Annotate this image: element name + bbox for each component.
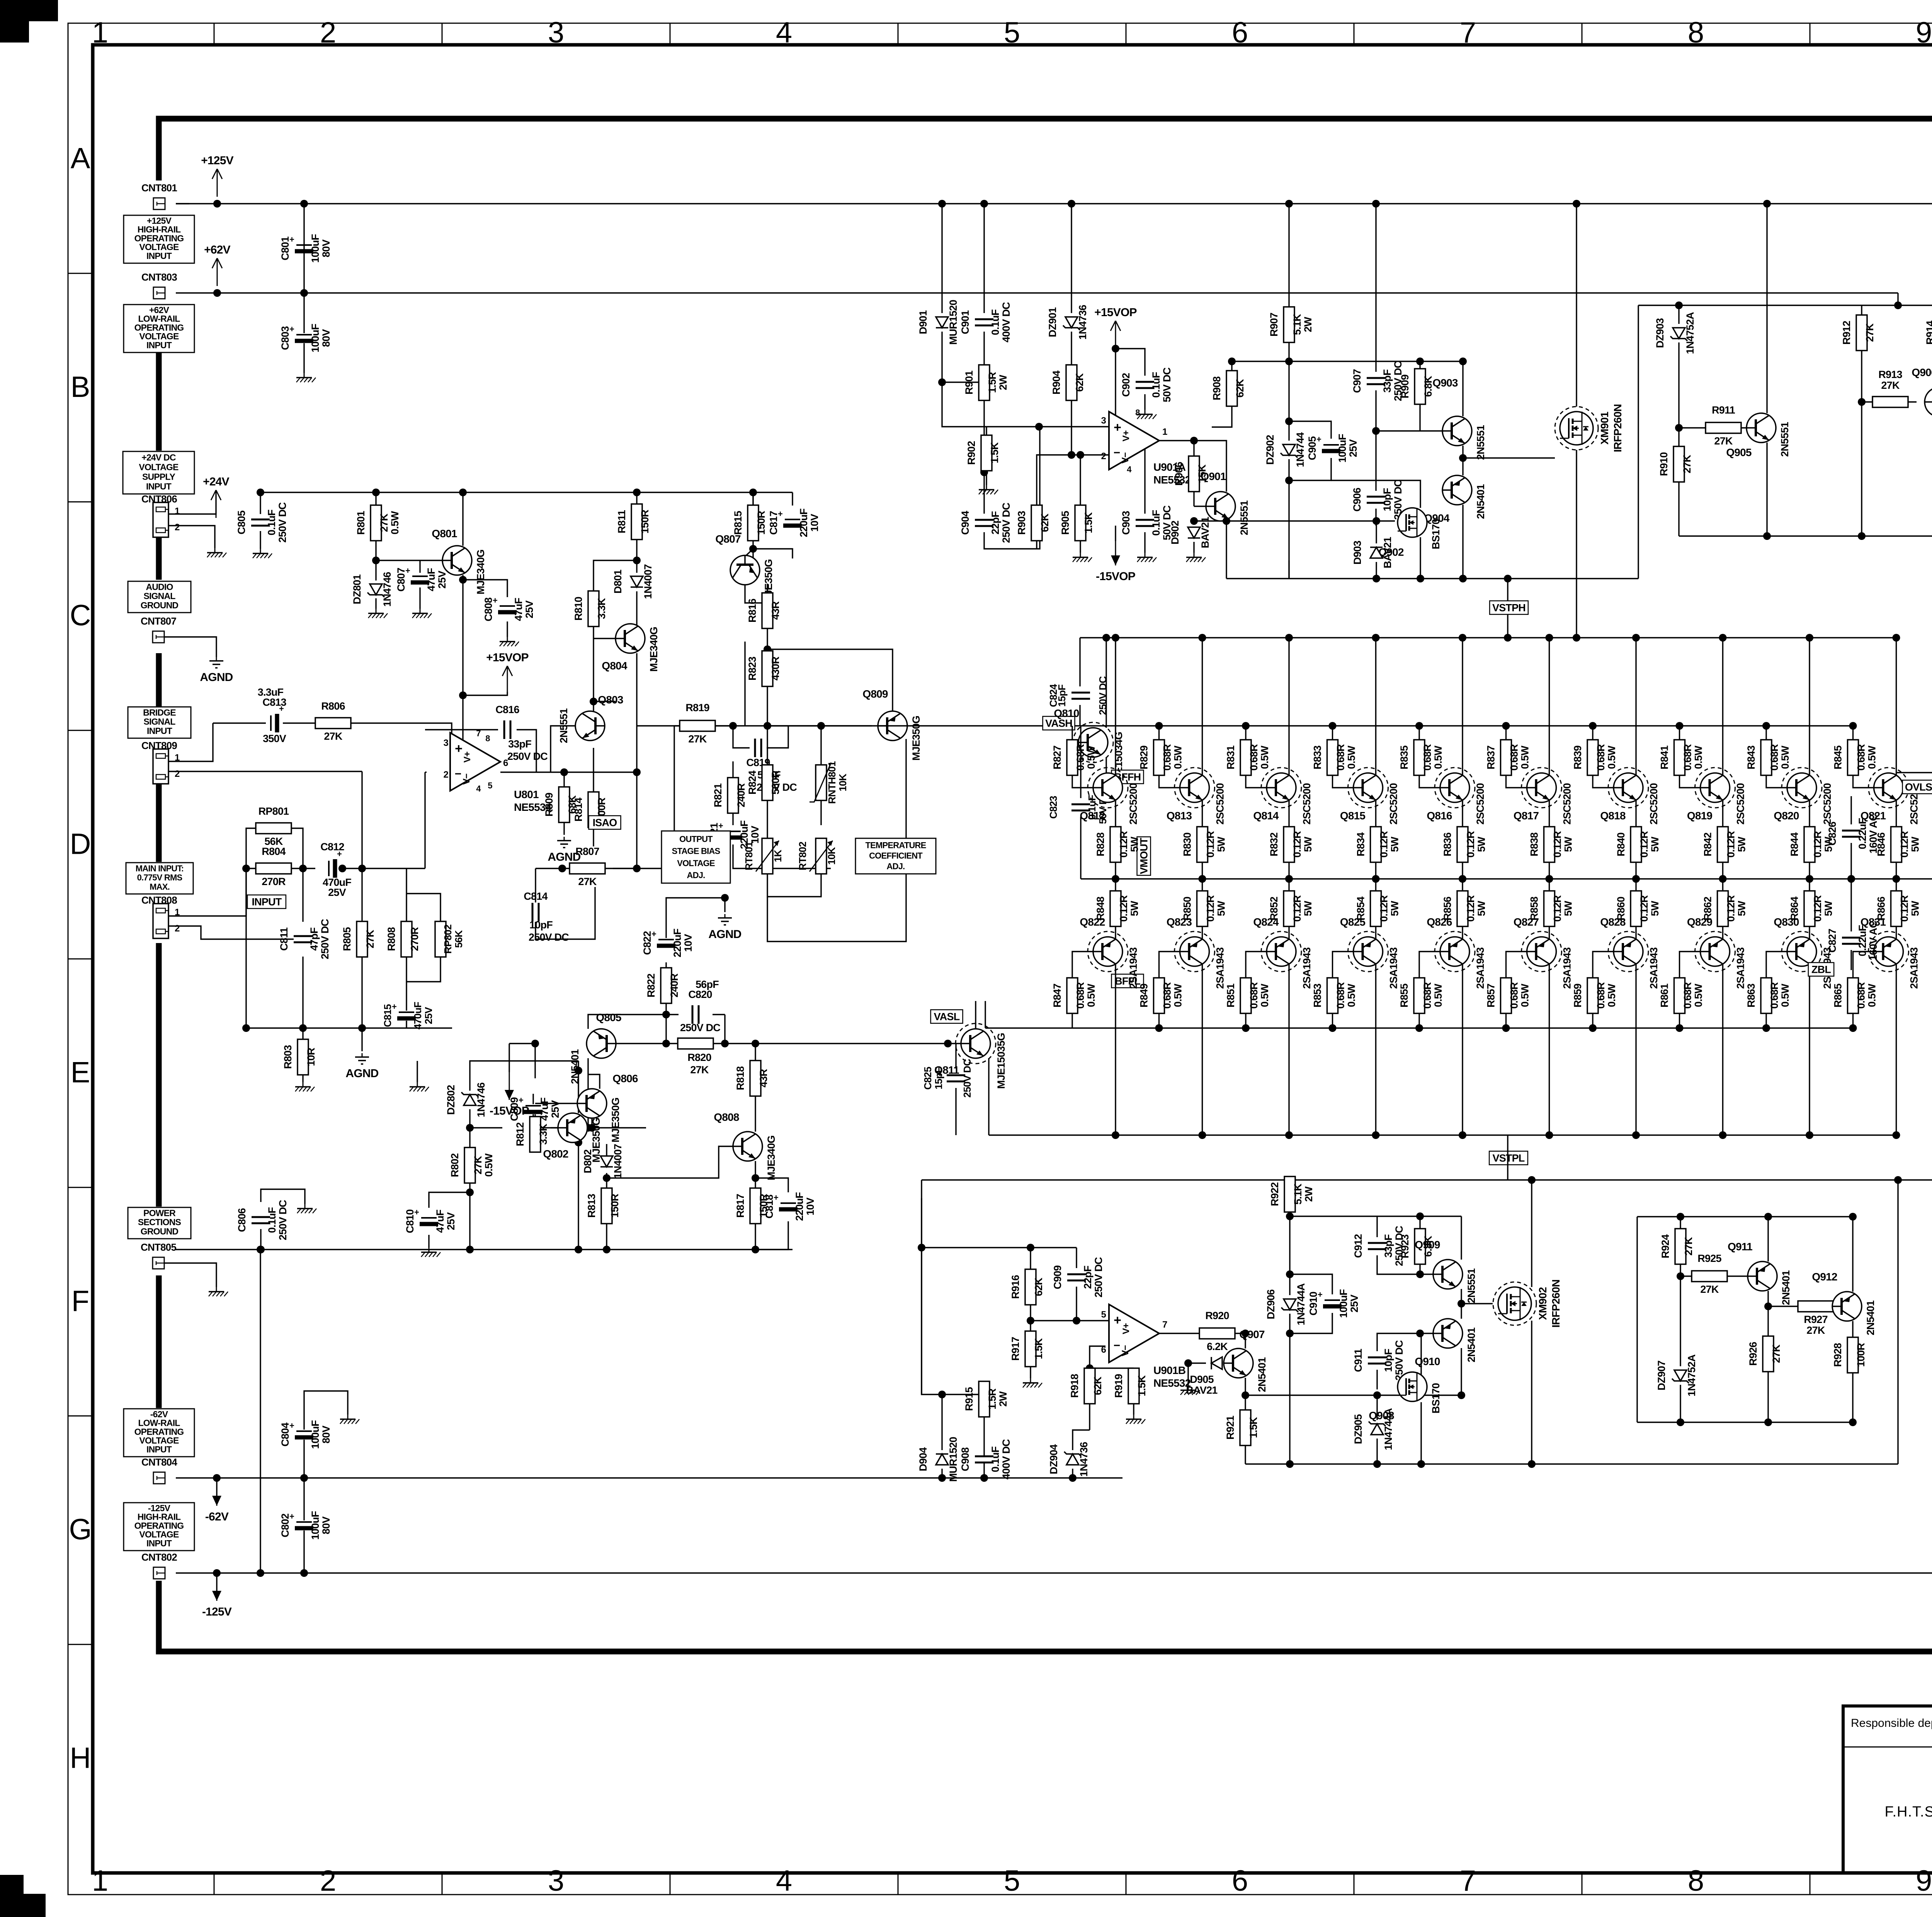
svg-text:62K: 62K xyxy=(1092,1376,1104,1395)
pot RT801 xyxy=(762,838,773,874)
junction baselow7 xyxy=(1589,1024,1597,1032)
junction R801 top xyxy=(372,489,380,496)
svg-text:0.12R: 0.12R xyxy=(1465,831,1476,858)
net label VASH xyxy=(1043,717,1075,730)
wire lower collector bus xyxy=(989,1134,1896,1136)
transistor Q912 xyxy=(1832,1292,1862,1321)
wire C909 bot xyxy=(1076,1287,1077,1321)
wire R909 bot xyxy=(1419,404,1420,431)
svg-text:50V DC: 50V DC xyxy=(1161,506,1173,540)
svg-text:2N5401: 2N5401 xyxy=(1475,484,1486,519)
svg-text:C805: C805 xyxy=(236,511,247,535)
resistor R848 xyxy=(1110,891,1121,926)
junction Q902 source xyxy=(1417,575,1424,582)
junction C806 bottom xyxy=(257,1246,265,1253)
svg-text:0.5W: 0.5W xyxy=(1519,746,1531,769)
wire base lead Q822 xyxy=(1072,952,1093,978)
svg-text:0.5W: 0.5W xyxy=(1606,984,1617,1007)
junction Q802 top node xyxy=(575,1067,582,1074)
svg-text:SIGNAL: SIGNAL xyxy=(143,591,175,601)
wire C911 top xyxy=(1377,1333,1420,1351)
svg-text:250V DC: 250V DC xyxy=(680,1022,720,1033)
svg-text:MAX.: MAX. xyxy=(150,882,170,892)
wire base resistor R865 xyxy=(1852,1013,1854,1028)
wire Q804 base xyxy=(594,638,616,639)
junction input node C xyxy=(338,865,346,872)
svg-text:R808: R808 xyxy=(386,927,397,951)
svg-text:−: − xyxy=(455,768,461,780)
label -62V input box xyxy=(124,1409,194,1457)
wire C813-R806 xyxy=(283,722,315,724)
wire +62V bus xyxy=(176,292,1898,293)
svg-text:R829: R829 xyxy=(1138,746,1150,770)
junction col1 vmout xyxy=(1112,875,1119,883)
svg-text:0.5W: 0.5W xyxy=(1346,746,1357,769)
resistor R918 xyxy=(1084,1368,1095,1404)
zone column divider 2|3 xyxy=(442,23,443,45)
resistor R854 xyxy=(1371,891,1381,926)
junction Q907 base xyxy=(1184,1359,1192,1367)
wire R815 bot xyxy=(752,549,753,558)
resistor R801 xyxy=(371,505,381,541)
wire R819 row xyxy=(637,725,680,726)
wire RNTH801 bot xyxy=(820,800,821,825)
svg-text:7: 7 xyxy=(1460,16,1476,49)
svg-text:R830: R830 xyxy=(1182,833,1193,856)
junction gnd bus C xyxy=(358,1024,366,1032)
junction DZ901 top xyxy=(1068,200,1075,208)
svg-text:400V DC: 400V DC xyxy=(1000,1439,1012,1479)
svg-text:B: B xyxy=(71,371,90,403)
heavy stub below CNT808 xyxy=(156,943,162,1207)
junction rail 2385-3228 xyxy=(918,1244,925,1251)
junction base4 top xyxy=(1329,722,1337,730)
svg-text:R926: R926 xyxy=(1747,1342,1759,1366)
svg-text:R859: R859 xyxy=(1572,984,1583,1008)
svg-text:D901: D901 xyxy=(917,310,929,334)
svg-text:2N5551: 2N5551 xyxy=(1238,500,1250,535)
junction C803 top xyxy=(300,289,308,297)
svg-text:C908: C908 xyxy=(959,1447,971,1471)
wire C816 left xyxy=(425,729,498,730)
junction C805 top xyxy=(257,489,264,496)
wire Q802 base row ext xyxy=(535,1127,558,1128)
svg-text:SUPPLY: SUPPLY xyxy=(142,472,175,482)
resistor R820 xyxy=(678,1038,713,1049)
junction base8 top xyxy=(1676,722,1684,730)
svg-text:25V: 25V xyxy=(524,600,535,618)
svg-text:1N4007: 1N4007 xyxy=(612,1144,624,1179)
wire C822 col xyxy=(665,926,667,943)
svg-text:2SC5200: 2SC5200 xyxy=(1128,783,1139,825)
wire R811 node to R810 xyxy=(594,560,637,591)
svg-text:0.68R: 0.68R xyxy=(1595,982,1607,1009)
svg-text:25V: 25V xyxy=(549,1100,561,1118)
wire R922 top xyxy=(1289,1176,1290,1180)
svg-text:IRFP260N: IRFP260N xyxy=(1550,1280,1562,1328)
svg-text:Q803: Q803 xyxy=(598,694,623,706)
capacitor C812 xyxy=(327,858,337,878)
opamp U801 xyxy=(450,733,500,791)
svg-text:0.68R: 0.68R xyxy=(1248,744,1260,771)
svg-text:250V DC: 250V DC xyxy=(1000,503,1012,543)
capacitor C808 xyxy=(497,604,517,615)
zone row divider B|C xyxy=(68,501,93,502)
svg-text:F.H.T.S. AUDIO POWER AMPLIFIER: F.H.T.S. AUDIO POWER AMPLIFIER xyxy=(1885,1804,1932,1820)
ground C804 xyxy=(347,1415,349,1419)
resistor R908 xyxy=(1226,371,1237,406)
wire R822 col xyxy=(665,962,667,968)
junction DZ906 bot node xyxy=(1286,1330,1294,1337)
wire base resistor R835 xyxy=(1418,726,1420,740)
wire C826-C827 xyxy=(1850,879,1852,931)
wire base resistor R859 xyxy=(1592,1013,1593,1028)
junction baselow2 xyxy=(1155,1024,1163,1032)
wire +24V front bus xyxy=(260,492,793,493)
svg-text:−: − xyxy=(1114,1339,1120,1352)
mosfet XM902 xyxy=(1493,1282,1536,1325)
junction col9 top xyxy=(1806,634,1813,642)
svg-text:Q817: Q817 xyxy=(1514,810,1539,822)
resistor R924 xyxy=(1675,1229,1686,1264)
wire RP802 bottom xyxy=(406,957,440,982)
svg-text:47uF: 47uF xyxy=(434,1210,446,1233)
junction C810 tap xyxy=(466,1188,474,1196)
capacitor C908 xyxy=(975,1456,993,1463)
heavy stub below CNT805 area xyxy=(156,1275,162,1408)
svg-text:2: 2 xyxy=(320,1864,336,1897)
wire R926 col xyxy=(1767,1306,1769,1336)
ground DZ801 xyxy=(376,609,377,613)
ground R905 xyxy=(1080,553,1081,557)
wire R820 nodes xyxy=(724,1015,725,1044)
svg-text:VASL: VASL xyxy=(934,1011,960,1023)
svg-text:C911: C911 xyxy=(1352,1348,1364,1372)
wire C814 loop xyxy=(535,868,536,902)
resistor R807 xyxy=(570,863,605,874)
svg-text:5: 5 xyxy=(1004,16,1020,49)
junction DZ903 top xyxy=(1675,301,1683,309)
junction C907 bot xyxy=(1372,427,1380,435)
mosfet XM901 xyxy=(1555,407,1598,450)
ground DZ802 loop xyxy=(417,1082,418,1087)
capacitor C906 xyxy=(1367,496,1385,504)
wire R928 bot xyxy=(1852,1373,1853,1422)
svg-text:Q823: Q823 xyxy=(1167,916,1192,928)
wire base resistor R863 xyxy=(1765,1013,1767,1028)
svg-text:C810: C810 xyxy=(404,1209,416,1233)
wire R912 node down xyxy=(1861,402,1862,536)
wire R907 col xyxy=(1288,204,1289,307)
wire R903 bot xyxy=(1036,541,1037,549)
svg-text:1: 1 xyxy=(175,752,180,763)
svg-text:R822: R822 xyxy=(645,974,657,997)
junction DZ906 rail xyxy=(1286,1460,1294,1468)
junction node 1986-1878 xyxy=(764,722,771,730)
wire Q901 emitter xyxy=(1226,520,1227,521)
svg-text:MJE340G: MJE340G xyxy=(765,1136,777,1180)
junction R807 node xyxy=(558,865,566,872)
resistor R853 xyxy=(1327,978,1338,1013)
transistor Q905 xyxy=(1747,413,1776,443)
zener DZ904 xyxy=(1066,1454,1079,1465)
wire Q909 emitter xyxy=(1461,1289,1462,1304)
svg-text:5W: 5W xyxy=(1389,836,1401,852)
svg-text:RT801: RT801 xyxy=(743,842,755,870)
svg-text:1.5R: 1.5R xyxy=(986,372,998,393)
wire output column 3 upper xyxy=(1288,638,1289,879)
svg-text:2: 2 xyxy=(175,522,180,533)
junction out node xyxy=(1242,1330,1249,1337)
wire output column 4 upper xyxy=(1375,638,1376,879)
junction baselow9 xyxy=(1762,1024,1770,1032)
junction col10 vmout xyxy=(1893,875,1900,883)
wire Q905 collector xyxy=(1766,204,1767,413)
resistor R840 xyxy=(1631,827,1641,862)
ground R919 xyxy=(1133,1415,1134,1419)
svg-text:2SC5200: 2SC5200 xyxy=(1214,783,1226,825)
wire DZ801 gnd xyxy=(375,598,376,609)
wire base lead Q812 xyxy=(1072,775,1093,788)
junction R923 node xyxy=(1416,1270,1424,1278)
svg-text:C825: C825 xyxy=(922,1067,934,1090)
wire Q801 emitter xyxy=(462,575,463,751)
svg-text:R805: R805 xyxy=(341,927,353,951)
svg-text:25V: 25V xyxy=(1347,439,1359,457)
wire node to Q801 base xyxy=(376,560,442,561)
wire -15VOP stub low xyxy=(509,1044,510,1072)
wire R906 col xyxy=(1193,441,1194,456)
wire C908-R915 xyxy=(983,1417,985,1450)
net label ISAO xyxy=(589,816,621,829)
junction C904 node xyxy=(980,468,988,476)
junction C911 node xyxy=(1416,1330,1424,1337)
capacitor C907 xyxy=(1367,377,1385,385)
wire C912 bot xyxy=(1377,1255,1420,1274)
wire base lead Q823 xyxy=(1159,952,1180,978)
svg-text:VOLTAGE: VOLTAGE xyxy=(139,462,179,472)
junction R818 node xyxy=(752,1040,759,1047)
junction D901 bot xyxy=(938,378,946,386)
junction base10 top xyxy=(1849,722,1857,730)
wire base resistor R855 xyxy=(1418,1013,1420,1028)
svg-text:+125V: +125V xyxy=(201,154,233,167)
svg-text:D904: D904 xyxy=(917,1447,929,1471)
wire U901B out xyxy=(1159,1333,1199,1334)
svg-text:C822: C822 xyxy=(641,931,653,955)
wire Q808 emitter xyxy=(755,1161,756,1188)
wire output column 8 upper xyxy=(1722,638,1723,879)
transistor Q829 2SA1943 xyxy=(1695,931,1735,972)
svg-text:R807: R807 xyxy=(575,846,599,857)
wire base resistor R841 xyxy=(1679,726,1680,740)
resistor R819 xyxy=(680,720,715,731)
svg-text:MJE340G: MJE340G xyxy=(475,550,486,594)
svg-text:Q822: Q822 xyxy=(1080,916,1105,928)
svg-text:R839: R839 xyxy=(1572,746,1583,770)
svg-text:OUTPUT: OUTPUT xyxy=(679,834,713,844)
wire C806 column xyxy=(260,1229,261,1250)
wire C816 right xyxy=(517,730,536,772)
resistor R923 xyxy=(1415,1229,1425,1264)
resistor R815 xyxy=(748,505,759,541)
diode D801 xyxy=(631,576,643,587)
transistor Q805 xyxy=(587,1029,616,1058)
ground CNT806 xyxy=(214,548,216,553)
svg-text:7: 7 xyxy=(1460,1864,1476,1897)
wire base lead Q829 xyxy=(1680,952,1701,978)
wire DZ905 col xyxy=(1376,1395,1378,1420)
svg-text:D903: D903 xyxy=(1352,541,1363,565)
transistor Q822 2SA1943 xyxy=(1088,931,1128,972)
wire Q911 emitter xyxy=(1767,1217,1769,1262)
capacitor C911 xyxy=(1368,1357,1386,1364)
wire R902 gnd xyxy=(986,471,987,485)
svg-text:80V: 80V xyxy=(320,239,332,257)
wire C907 bot xyxy=(1376,390,1420,431)
wire VSTPL stub xyxy=(1507,1135,1508,1180)
wire Q809 collector xyxy=(767,649,893,711)
junction D902 top xyxy=(1190,517,1198,525)
transistor Q815 2SC5200 xyxy=(1348,768,1388,808)
svg-text:DZ905: DZ905 xyxy=(1352,1414,1364,1444)
svg-text:430R: 430R xyxy=(770,657,781,681)
svg-text:R806: R806 xyxy=(321,700,345,712)
svg-text:43R: 43R xyxy=(770,601,781,620)
junction R905 top xyxy=(1077,451,1084,459)
svg-text:R831: R831 xyxy=(1225,746,1236,770)
junction U801 out2 xyxy=(633,768,641,776)
wire C810 gnd xyxy=(428,1235,429,1248)
junction XM902 rail xyxy=(1528,1460,1536,1468)
wire VMOUT bus xyxy=(1081,878,1932,879)
svg-text:Q812: Q812 xyxy=(1080,810,1105,822)
svg-text:+: + xyxy=(455,741,463,756)
wire pin5 row xyxy=(1031,1320,1111,1321)
svg-text:5W: 5W xyxy=(1649,836,1661,852)
svg-text:R851: R851 xyxy=(1225,984,1236,1008)
junction pin2 node xyxy=(1068,451,1075,459)
agnd input bus xyxy=(362,1053,363,1057)
svg-text:R847: R847 xyxy=(1051,984,1063,1007)
transistor Q807 xyxy=(730,555,760,585)
svg-text:Q811: Q811 xyxy=(934,1064,959,1076)
svg-text:0.1uF: 0.1uF xyxy=(990,309,1001,335)
wire Q907 base gnd xyxy=(1187,1363,1189,1386)
junction base7 top xyxy=(1589,722,1597,730)
svg-text:22pF: 22pF xyxy=(1082,1266,1094,1289)
wire C804 column xyxy=(303,1416,304,1478)
transistor Q801 xyxy=(442,546,472,575)
wire D904 col xyxy=(941,1469,942,1478)
svg-text:5W: 5W xyxy=(1129,901,1140,916)
svg-text:160V AC: 160V AC xyxy=(1867,921,1879,960)
wire DZ906 col xyxy=(1289,1216,1290,1295)
wire output column 2 upper xyxy=(1202,638,1203,879)
svg-text:R838: R838 xyxy=(1529,833,1540,856)
wire output column 9 lower xyxy=(1809,879,1810,1135)
power flag -62V xyxy=(216,1478,218,1506)
wire RNTH801 col xyxy=(820,726,821,765)
svg-text:SECTIONS: SECTIONS xyxy=(138,1217,181,1227)
wire Q809 emitter xyxy=(905,739,906,754)
resistor R866 xyxy=(1891,891,1902,926)
svg-text:R828: R828 xyxy=(1095,833,1106,856)
svg-text:2SA1943: 2SA1943 xyxy=(1735,947,1747,989)
svg-text:27K: 27K xyxy=(1681,455,1693,473)
capacitor C816 xyxy=(503,720,511,739)
wire D903 bot xyxy=(1376,562,1377,579)
wire pin3 net left xyxy=(942,382,986,427)
wire CNT807 lead xyxy=(165,637,216,657)
svg-text:R844: R844 xyxy=(1789,833,1800,856)
wire C819 right xyxy=(767,726,788,748)
svg-text:DZ903: DZ903 xyxy=(1654,318,1666,348)
wire +15VOP stub xyxy=(463,692,507,695)
svg-text:R908: R908 xyxy=(1211,376,1223,400)
svg-text:0.12R: 0.12R xyxy=(1812,831,1823,858)
capacitor C825 xyxy=(947,1074,965,1082)
svg-text:10pF: 10pF xyxy=(529,919,553,931)
junction col9 vmout xyxy=(1806,875,1813,883)
wire R801 to DZ801 node xyxy=(375,541,376,581)
wire R919 top xyxy=(1090,1367,1134,1369)
svg-text:1: 1 xyxy=(92,16,108,49)
svg-text:G: G xyxy=(69,1513,92,1546)
svg-text:R820: R820 xyxy=(687,1052,711,1063)
svg-text:4: 4 xyxy=(776,16,792,49)
svg-text:STAGE BIAS: STAGE BIAS xyxy=(672,846,720,856)
svg-text:5W: 5W xyxy=(1736,836,1748,852)
junction col5 lowbus xyxy=(1459,1131,1466,1139)
svg-text:NE5532: NE5532 xyxy=(1153,1377,1191,1389)
capacitor C827 xyxy=(1842,937,1861,945)
wire R916 col xyxy=(1030,1248,1031,1269)
svg-text:0.12R: 0.12R xyxy=(1118,831,1129,858)
svg-text:27K: 27K xyxy=(1864,323,1876,342)
resistor R832 xyxy=(1284,827,1294,862)
svg-text:0.5W: 0.5W xyxy=(1432,984,1444,1007)
svg-text:Q807: Q807 xyxy=(715,533,741,545)
wire R823-R824 xyxy=(767,686,768,765)
svg-text:62K: 62K xyxy=(1074,373,1085,392)
wire C805 bottom xyxy=(260,531,261,549)
corner mark bottom-left xyxy=(0,1875,46,1917)
wire base resistor R845 xyxy=(1852,726,1854,740)
svg-text:Q824: Q824 xyxy=(1253,916,1279,928)
wire R927-Q912 xyxy=(1833,1306,1836,1307)
svg-text:POWER: POWER xyxy=(143,1208,176,1218)
resistor R824 xyxy=(762,765,773,800)
svg-text:R823: R823 xyxy=(747,657,758,681)
svg-text:27K: 27K xyxy=(1806,1325,1825,1336)
resistor R909 xyxy=(1415,369,1425,404)
resistor R842 xyxy=(1718,827,1728,862)
svg-text:AUDIO: AUDIO xyxy=(146,582,173,592)
svg-text:CNT807: CNT807 xyxy=(141,615,176,627)
junction col10 top xyxy=(1893,634,1900,642)
svg-text:27K: 27K xyxy=(378,513,390,532)
junction VSTPH bus dots xyxy=(1504,634,1512,642)
wire U901A out xyxy=(1158,440,1194,441)
svg-text:C823: C823 xyxy=(1048,796,1059,819)
svg-text:2SA1943: 2SA1943 xyxy=(1388,947,1400,989)
wire Q807 emitter xyxy=(744,642,745,726)
svg-text:400V DC: 400V DC xyxy=(1000,302,1012,342)
svg-text:0.12R: 0.12R xyxy=(1205,831,1216,858)
ground C808 xyxy=(507,637,508,642)
wire R817 bot xyxy=(755,1223,756,1250)
